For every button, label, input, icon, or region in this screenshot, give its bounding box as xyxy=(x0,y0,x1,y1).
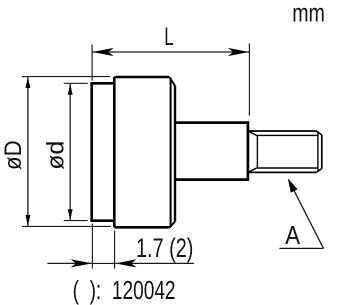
body right outer edge xyxy=(174,86,176,222)
shaft (stem cylinder) xyxy=(175,123,248,180)
thread right end edge xyxy=(321,135,323,169)
od arrow down xyxy=(68,209,73,220)
thread inner bottom line xyxy=(257,167,318,169)
dim 1.7 extension line right xyxy=(114,231,116,269)
body right face chamfer top xyxy=(169,77,175,86)
thread chamfer right-top xyxy=(316,131,321,135)
dimension L arrow right xyxy=(228,48,249,56)
threaded stud outer top line xyxy=(248,130,316,132)
dimension L extension line left xyxy=(91,44,93,80)
body right inner silhouette line xyxy=(170,78,172,228)
svg-text:ød: ød xyxy=(43,141,69,170)
svg-text:A: A xyxy=(285,221,300,250)
main body (large cylinder oD) xyxy=(114,77,170,227)
oD arrow up xyxy=(26,77,31,88)
thread inner right vertical xyxy=(317,132,319,172)
oD dimension line xyxy=(27,77,29,226)
od arrow up xyxy=(68,84,73,95)
thread chamfer left-bottom xyxy=(248,168,257,173)
od extension line bottom xyxy=(64,220,88,222)
svg-text:1.7 (2): 1.7 (2) xyxy=(136,233,193,262)
dim 1.7 arrow pointing right xyxy=(71,259,92,267)
thread inner top line xyxy=(257,134,318,136)
dimension L arrow left xyxy=(92,48,113,56)
flange (thin collar disc, left) xyxy=(92,83,115,220)
oD arrow down xyxy=(26,215,31,226)
svg-text:øD: øD xyxy=(0,140,26,170)
callout A arrowhead xyxy=(288,178,298,192)
thread chamfer right-bottom xyxy=(316,169,321,173)
svg-text:L: L xyxy=(164,23,174,51)
dim 1.7 line middle segment xyxy=(92,262,114,264)
dim 1.7 line right segment (leader under text) xyxy=(115,262,193,264)
body right face chamfer bottom xyxy=(170,222,175,228)
callout A leader diagonal xyxy=(289,180,324,248)
svg-text:( ): 120042: ( ): 120042 xyxy=(73,275,176,305)
dim 1.7 arrow pointing left xyxy=(115,259,136,267)
threaded stud outer bottom line xyxy=(248,171,316,173)
oD extension line bottom xyxy=(22,225,111,227)
dim 1.7 extension line left xyxy=(91,224,93,269)
dimension L extension line right xyxy=(248,43,250,115)
oD extension line top xyxy=(22,76,110,78)
od dimension line xyxy=(69,84,71,220)
od extension line top xyxy=(64,82,88,84)
thread inner left vertical xyxy=(256,136,258,168)
svg-text:mm: mm xyxy=(292,0,325,27)
dim 1.7 line left segment xyxy=(47,262,91,264)
thread chamfer left-top xyxy=(248,131,257,136)
dimension L line xyxy=(92,51,249,53)
callout A underline xyxy=(279,247,323,249)
